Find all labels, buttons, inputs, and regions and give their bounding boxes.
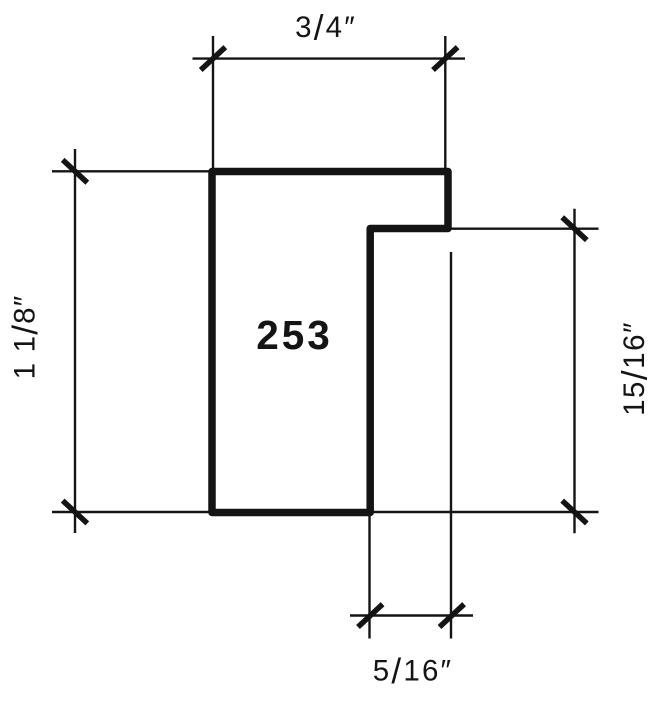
moulding profile 253 outline — [212, 172, 448, 513]
bottom dimension tick right — [440, 604, 465, 627]
right dimension tick bottom — [562, 501, 587, 524]
right dimension extension line top — [450, 227, 599, 229]
svg-text:1 1/8″: 1 1/8″ — [6, 295, 45, 380]
top dimension line — [193, 57, 466, 59]
left dimension line — [74, 149, 76, 533]
svg-text:15/16″: 15/16″ — [616, 321, 655, 416]
bottom dimension tick left — [358, 604, 383, 627]
right dimension extension line bottom — [371, 511, 599, 513]
svg-text:5/16″: 5/16″ — [373, 652, 453, 691]
left dimension extension line bottom — [52, 511, 213, 513]
bottom dimension extension line left — [368, 514, 370, 639]
top dimension tick left — [201, 47, 226, 70]
left dimension tick top — [63, 160, 88, 183]
right dimension line — [573, 209, 575, 534]
bottom dimension extension line right — [450, 252, 452, 639]
left dimension tick bottom — [63, 501, 88, 524]
right dimension tick top — [562, 217, 587, 240]
left dimension extension line top — [52, 170, 213, 172]
top dimension extension line right — [444, 36, 446, 172]
svg-text:253: 253 — [256, 312, 333, 358]
top dimension tick right — [433, 47, 458, 70]
top dimension extension line left — [212, 36, 214, 172]
bottom dimension line — [350, 614, 473, 616]
svg-text:3/4″: 3/4″ — [295, 9, 357, 48]
